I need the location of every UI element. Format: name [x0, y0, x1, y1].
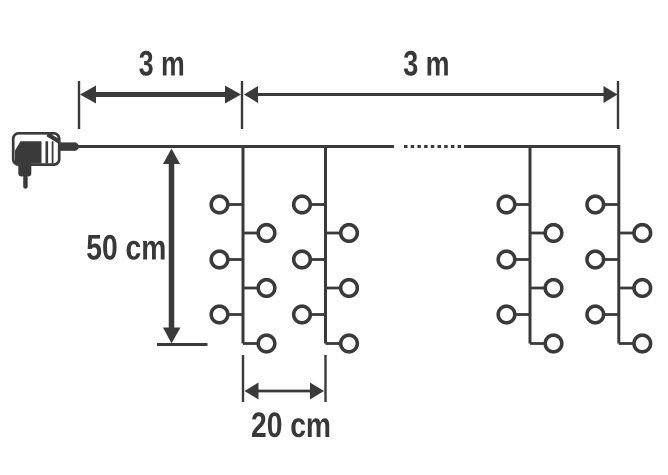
svg-text:20 cm: 20 cm — [251, 406, 331, 445]
svg-text:3 m: 3 m — [139, 45, 185, 84]
svg-text:3 m: 3 m — [403, 45, 449, 84]
svg-text:50 cm: 50 cm — [86, 228, 166, 267]
